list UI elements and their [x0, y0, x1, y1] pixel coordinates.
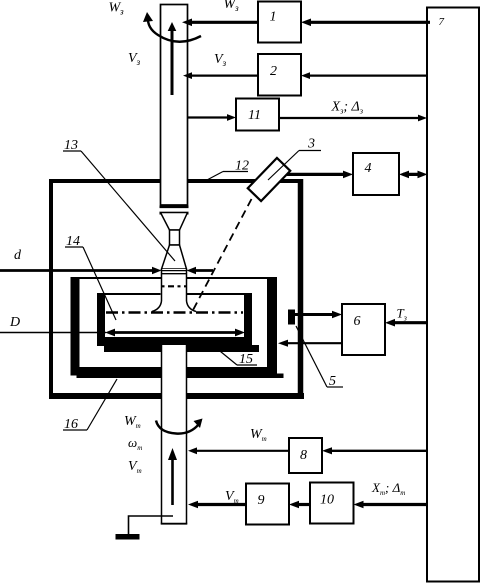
wire pyrometer 3 to 4 [287, 171, 353, 179]
svg-text:8: 8 [300, 448, 307, 463]
box 6 [342, 304, 385, 355]
chamber 12 top edge [49, 179, 303, 183]
svg-text:Xз; Δз: Xз; Δз [331, 100, 364, 116]
label 16 with leader [63, 379, 117, 432]
wire 5 to 6 [295, 311, 342, 319]
sight line (dashed) from pyrometer to melt [192, 199, 252, 312]
wire 10 to 9 [289, 501, 310, 509]
svg-text:D: D [9, 315, 20, 330]
svg-text:11: 11 [248, 108, 261, 123]
wire 9 to shaft (Vт) [188, 501, 246, 509]
svg-text:Xт; Δт: Xт; Δт [371, 480, 405, 497]
meniscus right [187, 301, 197, 312]
svg-text:1: 1 [270, 10, 277, 25]
chamber 12 bottom edge [49, 393, 304, 399]
chamber 12 left wall [49, 179, 53, 399]
heater 16 right wall [267, 277, 277, 375]
meniscus left [152, 301, 162, 312]
crucible 15 right wall [244, 294, 252, 346]
crucible 15 bottom shadow [104, 345, 259, 352]
seed holder cone [161, 213, 188, 231]
chamber 12 right wall [298, 179, 304, 399]
heater 16 top rim [71, 277, 278, 279]
wire 8 to shaft (Wт) [188, 447, 289, 454]
wire 7 to 2 (Vз) [301, 72, 427, 79]
box 7 (controller) [427, 8, 479, 582]
wire 1 to shaft (Wз) [182, 19, 258, 27]
wire 7 to 10 (Xт; Дт) [354, 501, 428, 509]
box 11 [236, 99, 279, 131]
d measurement line left [0, 267, 162, 274]
heater 16 left wall [71, 277, 80, 375]
upper shaft [161, 5, 188, 206]
svg-text:2: 2 [270, 64, 277, 79]
D measurement line with outward arrows [105, 329, 245, 337]
label 15 with leader [215, 347, 257, 367]
svg-text:3: 3 [307, 137, 315, 152]
wire 7 to 1 (Wз) [301, 19, 430, 27]
melt level dash-dot line [106, 311, 243, 314]
crucible 15 top rim [97, 293, 252, 295]
seed neck [170, 230, 180, 245]
hidden rim dashes across crystal [162, 285, 187, 287]
rotation arrow bottom (Wт) [156, 419, 203, 434]
ground [116, 516, 174, 540]
wire 2 to shaft (Vз) [183, 72, 258, 79]
crystal shoulder cone [162, 245, 187, 269]
svg-text:6: 6 [354, 314, 361, 329]
box 1 [258, 2, 301, 43]
crystal body 13 [162, 269, 187, 301]
wire 11 to 7 (Xз; Дз) [279, 115, 427, 122]
chuck band [160, 206, 189, 213]
wire 4 to 7 (double arrow) [399, 171, 428, 179]
label 14 with leader [65, 234, 116, 320]
svg-text:4: 4 [365, 161, 372, 176]
box 10 [310, 483, 354, 524]
feed arrow up (Vт) in lower shaft [168, 448, 177, 505]
heater 16 bottom shadow [77, 374, 284, 379]
svg-text:10: 10 [320, 493, 334, 508]
label 5 with leader [296, 326, 343, 389]
label 3 with leader [268, 137, 321, 181]
box 2 [258, 54, 301, 96]
wire 7 to 6 (Tз) [385, 319, 427, 327]
pedestal shaft (lower) [161, 344, 188, 524]
box 9 [246, 484, 289, 525]
heater 16 bottom [71, 367, 278, 376]
d measurement line right [187, 267, 214, 274]
wire 7 to 8 (Wт) [322, 447, 427, 454]
feed arrow up (Vз) in upper shaft [168, 22, 177, 95]
svg-text:9: 9 [258, 493, 265, 508]
rotation arrow top (Wз) [143, 12, 201, 42]
svg-text:d: d [14, 248, 22, 263]
label 12 with leader [206, 159, 249, 181]
box 8 [289, 438, 322, 473]
box 4 [353, 153, 399, 195]
wire 6 to heater [278, 340, 342, 347]
wire shaft to 11 [188, 114, 236, 121]
D label line [0, 332, 106, 334]
svg-text:7: 7 [439, 16, 445, 28]
crucible 15 left wall [97, 294, 105, 346]
label 13 with leader [63, 138, 175, 261]
crucible 15 bottom [97, 337, 252, 345]
pyrometer 3 (tilted) [248, 158, 290, 201]
sensor 5 (black) [288, 310, 295, 325]
